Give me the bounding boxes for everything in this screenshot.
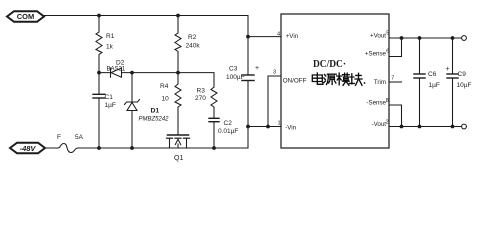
- svg-text:C3: C3: [229, 66, 238, 73]
- svg-text:-Sense: -Sense: [366, 99, 386, 106]
- svg-text:DC/DC·: DC/DC·: [313, 59, 346, 70]
- capacitor C9: [446, 38, 472, 127]
- module label CJK 源: [324, 74, 336, 84]
- svg-text:240k: 240k: [186, 43, 201, 50]
- zener D1 PMBZ5242: [125, 73, 170, 148]
- node +Vin tee: [246, 35, 250, 39]
- node C1 bottom: [97, 146, 101, 150]
- wire to pin 4: [248, 36, 281, 38]
- svg-text:R3: R3: [197, 88, 206, 95]
- svg-text:5A: 5A: [75, 134, 84, 141]
- resistor R2: [175, 16, 200, 73]
- svg-text:PMBZ5242: PMBZ5242: [139, 116, 170, 122]
- svg-text:0.01µF: 0.01µF: [218, 128, 238, 135]
- svg-text:D1: D1: [151, 108, 160, 115]
- svg-text:1µF: 1µF: [429, 82, 440, 89]
- svg-text:R2: R2: [188, 34, 197, 41]
- svg-text:F: F: [57, 134, 61, 141]
- svg-text:+Vin: +Vin: [286, 33, 299, 40]
- node top rail junction R2: [176, 14, 180, 18]
- terminal -48V: [10, 143, 45, 154]
- transistor Q1: [167, 135, 190, 162]
- svg-text:C2: C2: [224, 120, 233, 127]
- wire -Vin line: [248, 126, 281, 128]
- wire gate-drive node line: [99, 73, 214, 87]
- capacitor C6: [414, 38, 440, 127]
- wire +Vout rail: [389, 37, 462, 39]
- node D2 cathode junction: [97, 71, 101, 75]
- node C3 bottom: [246, 125, 250, 129]
- svg-text:C1: C1: [105, 94, 114, 101]
- wire +Sense strap: [389, 38, 402, 57]
- svg-text:1: 1: [278, 120, 281, 126]
- capacitor C2: [209, 118, 238, 148]
- terminal COM: [7, 11, 44, 22]
- svg-text:-48V: -48V: [20, 144, 37, 153]
- terminal +output circle: [462, 36, 467, 41]
- node C6 bottom: [418, 125, 422, 129]
- capacitor C1: [93, 73, 116, 148]
- node C2 bottom: [212, 146, 216, 150]
- node C9 bottom: [451, 125, 455, 129]
- module U1 DC/DC box: [281, 14, 389, 148]
- svg-text:C6: C6: [428, 71, 437, 78]
- svg-text:+: +: [446, 66, 450, 73]
- svg-text:ON/OFF: ON/OFF: [283, 78, 307, 85]
- svg-text:C9: C9: [458, 71, 467, 78]
- svg-text:BAS21: BAS21: [107, 67, 126, 73]
- node D1 junction: [130, 71, 134, 75]
- module label CJK 模: [337, 73, 350, 85]
- svg-text:Q1: Q1: [174, 155, 183, 162]
- terminal -output circle: [462, 124, 467, 129]
- capacitor C3: [226, 37, 259, 127]
- svg-text:-Vout: -Vout: [372, 121, 387, 128]
- wire top rail: [44, 16, 248, 37]
- resistor R3: [195, 87, 217, 118]
- svg-text:COM: COM: [17, 12, 35, 21]
- svg-text:+Vout: +Vout: [370, 32, 386, 39]
- svg-text:2: 2: [386, 119, 389, 125]
- node ON/OFF drop: [266, 125, 270, 129]
- node top rail junction R1: [97, 14, 101, 18]
- svg-text:R1: R1: [106, 33, 115, 40]
- module label CJK 块: [349, 73, 362, 85]
- node C6 top: [418, 36, 422, 40]
- svg-text:4: 4: [277, 31, 280, 37]
- svg-text:7: 7: [391, 75, 394, 81]
- svg-text:6: 6: [386, 49, 389, 55]
- module label CJK 电: [312, 73, 323, 84]
- svg-text:10µF: 10µF: [457, 82, 472, 89]
- svg-text:10: 10: [162, 95, 170, 102]
- svg-text:5: 5: [386, 31, 389, 37]
- svg-text:270: 270: [195, 95, 206, 102]
- svg-text:+Sense: +Sense: [365, 51, 387, 58]
- module label dot: [364, 82, 366, 84]
- svg-text:D2: D2: [116, 60, 125, 67]
- svg-text:100µF: 100µF: [226, 74, 245, 81]
- node R2/R4 junction: [176, 71, 180, 75]
- svg-text:1k: 1k: [106, 44, 114, 51]
- wire bottom rail: [85, 127, 248, 149]
- svg-text:1µF: 1µF: [105, 102, 116, 109]
- node +Sense junction: [400, 36, 404, 40]
- diode D2 BAS21: [107, 60, 126, 78]
- wire ON/OFF: [268, 76, 281, 127]
- wire -Vout rail: [389, 126, 462, 128]
- svg-text:8: 8: [386, 98, 389, 104]
- svg-text:3: 3: [273, 70, 276, 76]
- resistor R1: [96, 16, 115, 73]
- fuse F 5A: [45, 134, 85, 153]
- wire -Sense strap: [389, 105, 402, 127]
- svg-text:R4: R4: [160, 83, 169, 90]
- svg-text:-Vin: -Vin: [285, 125, 296, 132]
- svg-text:Trim: Trim: [374, 79, 386, 86]
- node C9 top: [451, 36, 455, 40]
- node D1 bottom: [130, 146, 134, 150]
- resistor R4: [160, 73, 181, 135]
- wire Trim stub: [389, 81, 402, 83]
- node -Sense junction: [400, 125, 404, 129]
- svg-text:+: +: [255, 65, 259, 72]
